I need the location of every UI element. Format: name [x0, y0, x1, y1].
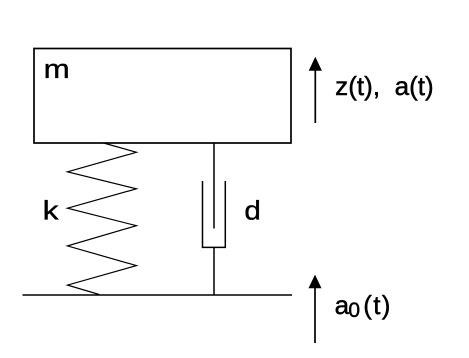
- mass block m: [34, 49, 291, 144]
- spring k: [68, 143, 137, 295]
- label d: [244, 196, 261, 225]
- ground line (base): [23, 294, 293, 296]
- damper d rod (lower): [213, 247, 215, 295]
- label z(t), a(t): [335, 71, 434, 101]
- damper d cylinder cup: [203, 181, 226, 247]
- svg-text:d: d: [244, 196, 261, 225]
- svg-text:a0(t): a0(t): [335, 290, 391, 322]
- damper d piston rod (upper): [213, 143, 215, 229]
- svg-text:m: m: [44, 55, 70, 85]
- arrow z(t): [309, 57, 322, 123]
- svg-text:z(t), a(t): z(t), a(t): [335, 71, 434, 101]
- arrow a0(t): [309, 275, 322, 343]
- label a0(t): [335, 290, 391, 322]
- svg-text:k: k: [43, 197, 59, 226]
- label k: [43, 197, 59, 226]
- label m: [44, 55, 70, 85]
